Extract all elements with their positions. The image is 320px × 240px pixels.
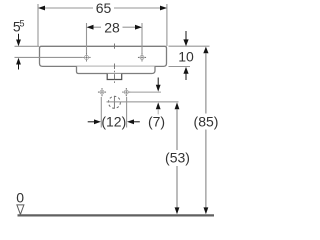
- svg-text:(85): (85): [194, 113, 219, 129]
- dim (53): line: [175, 102, 180, 109]
- tap hole left: [82, 53, 90, 61]
- dim 5.5: extension lines: [15, 46, 83, 57]
- dim 5.5: down arrow: [18, 34, 20, 42]
- drain circle cross: [113, 96, 115, 109]
- svg-text:(7): (7): [148, 113, 165, 129]
- drain circle: [108, 96, 120, 108]
- dim (12): left arrow: [88, 121, 95, 123]
- svg-text:5: 5: [20, 18, 25, 28]
- dim 10: extension lines: [169, 46, 210, 66]
- dim 5.5: up arrow: [18, 64, 20, 70]
- extension lines: [86, 23, 88, 54]
- dim (7): up arrow: [156, 102, 161, 109]
- basin skirt: [77, 66, 156, 73]
- fixing hole right: [122, 88, 130, 96]
- dim 10: up arrow: [185, 73, 187, 80]
- dim 65: line: [38, 4, 167, 46]
- extension lines: [37, 4, 39, 46]
- dim (7): down arrow: [157, 78, 159, 86]
- dim 28: line: [87, 23, 143, 54]
- fixing hole left: [98, 88, 106, 96]
- datum triangle: [17, 205, 24, 215]
- svg-text:65: 65: [96, 0, 112, 16]
- dim (85): line: [203, 47, 208, 54]
- svg-text:10: 10: [178, 48, 194, 64]
- centerline: [113, 44, 115, 84]
- svg-text:28: 28: [104, 19, 120, 35]
- basin body: [40, 46, 167, 66]
- drain line right: [107, 101, 179, 103]
- dim 10: down arrow: [185, 31, 187, 40]
- hole line right: [131, 91, 162, 93]
- drain flange: [107, 74, 122, 80]
- dim (12): right arrow: [134, 121, 140, 123]
- tap hole right: [138, 53, 146, 61]
- svg-text:(12): (12): [101, 114, 126, 130]
- svg-text:(53): (53): [165, 150, 190, 166]
- dim 28: arrows: [87, 25, 94, 30]
- dim (12): extension lines: [101, 97, 126, 128]
- dim 65: arrows: [38, 6, 45, 11]
- floor line: [18, 214, 215, 216]
- svg-text:0: 0: [16, 190, 24, 206]
